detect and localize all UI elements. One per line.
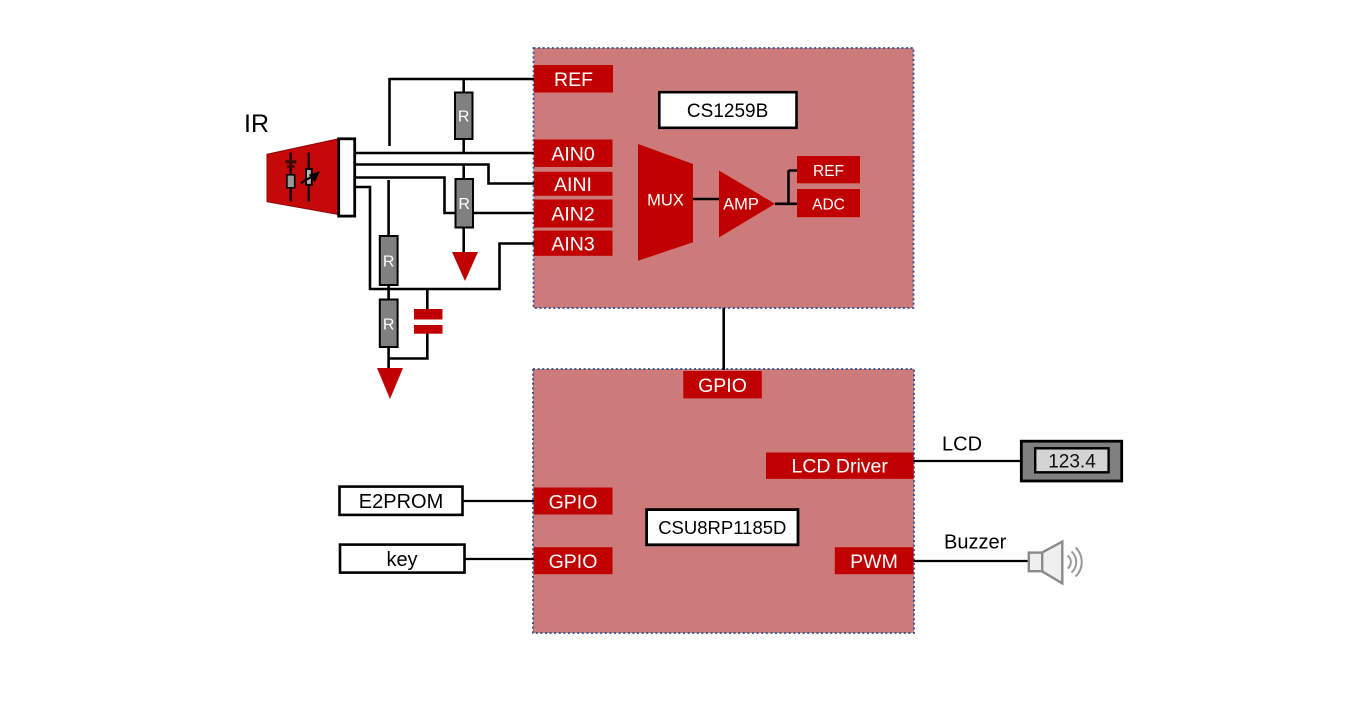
- wire AMP output junction: [775, 171, 797, 204]
- svg-text:GPIO: GPIO: [549, 551, 598, 573]
- port label REF (U1): [534, 65, 613, 93]
- box E2PROM: [340, 487, 463, 515]
- wire AINI net: [355, 165, 535, 184]
- wire R4 top stub: [387, 289, 390, 300]
- svg-text:CS1259B: CS1259B: [687, 101, 768, 122]
- resistor R1: [455, 93, 473, 140]
- svg-text:ADC: ADC: [812, 197, 845, 214]
- svg-text:R: R: [383, 254, 395, 271]
- svg-text:LCD Driver: LCD Driver: [791, 456, 888, 478]
- wire C1 bottom to R4 bottom: [389, 334, 428, 359]
- wire R4 bottom stub to ground: [387, 347, 390, 369]
- wire REF net vertical stub: [388, 78, 391, 146]
- wire E2PROM to GPIO: [463, 500, 535, 502]
- wire R1 bottom stub: [462, 139, 465, 153]
- wire R3 drop from AIN2 net: [387, 180, 390, 237]
- svg-text:123.4: 123.4: [1048, 452, 1096, 473]
- svg-text:R: R: [383, 317, 395, 334]
- internal box ADC: [797, 189, 860, 217]
- box key: [340, 545, 465, 573]
- svg-text:GPIO: GPIO: [698, 375, 747, 397]
- wire AIN2 net: [355, 178, 535, 214]
- svg-text:AIN2: AIN2: [551, 204, 594, 226]
- svg-text:LCD: LCD: [942, 434, 982, 456]
- wire REF net horizontal: [390, 78, 536, 81]
- svg-text:REF: REF: [813, 163, 844, 180]
- svg-text:AINI: AINI: [554, 174, 592, 196]
- LCD module outer frame: [1021, 441, 1121, 481]
- port label GPIO left upper: [534, 488, 613, 515]
- chip name box CS1259B: [659, 92, 796, 128]
- wire R1 top stub: [462, 79, 465, 93]
- LCD module screen: [1035, 448, 1108, 472]
- svg-text:IR: IR: [244, 110, 269, 138]
- port label LCD Driver: [766, 453, 914, 479]
- block U2 CSU8RP1185D MCU body: [533, 369, 914, 633]
- svg-text:R: R: [458, 109, 470, 126]
- svg-text:R: R: [458, 196, 470, 213]
- wire R2 top stub: [462, 165, 465, 181]
- wire R2 bottom stub to ground: [462, 228, 465, 254]
- wire U1 GPIO to U2 GPIO: [722, 308, 725, 370]
- ground arrow left (below R4): [377, 368, 403, 399]
- wire AIN3 net: [355, 187, 535, 289]
- IR sensor internal thermopile symbol: [285, 153, 296, 202]
- wire key to GPIO: [465, 558, 535, 560]
- internal box REF: [797, 156, 860, 183]
- capacitor C1 plates: [414, 309, 443, 334]
- svg-text:REF: REF: [554, 69, 593, 91]
- IR sensor connector (white bar): [339, 139, 355, 216]
- port label PWM: [835, 547, 914, 574]
- wire C1 top stub: [426, 289, 429, 310]
- IR sensor body (red trapezoid): [267, 139, 339, 215]
- svg-text:AMP: AMP: [723, 196, 759, 214]
- port label GPIO left lower: [534, 547, 613, 574]
- port label GPIO top (U2): [683, 371, 762, 398]
- svg-text:PWM: PWM: [850, 551, 898, 573]
- svg-text:key: key: [386, 549, 417, 571]
- buzzer sound waves: [1068, 548, 1082, 577]
- port label AIN2: [534, 200, 613, 228]
- mux (trapezoid): [638, 144, 693, 261]
- wire LCD Driver to LCD: [914, 460, 1022, 462]
- resistor R4: [380, 300, 398, 348]
- IR sensor internal thermistor symbol with arrow: [301, 153, 320, 202]
- port label AIN3: [534, 231, 613, 256]
- wire PWM to buzzer: [914, 560, 1030, 562]
- block U1 CS1259B ADC chip body: [534, 48, 914, 308]
- port label AIN0: [534, 140, 613, 168]
- wire R3 bottom stub: [387, 285, 390, 290]
- resistor R2: [456, 179, 474, 228]
- port label AINI: [534, 172, 613, 196]
- svg-text:E2PROM: E2PROM: [359, 491, 443, 513]
- resistor R3: [380, 236, 398, 285]
- chip name box CSU8RP1185D: [647, 510, 798, 545]
- svg-text:Buzzer: Buzzer: [944, 532, 1007, 554]
- svg-text:GPIO: GPIO: [549, 492, 598, 514]
- wire MUX to AMP: [693, 198, 719, 201]
- svg-text:AIN0: AIN0: [551, 144, 595, 166]
- ground arrow right (below R2): [452, 252, 478, 281]
- buzzer speaker body: [1029, 542, 1063, 584]
- svg-text:MUX: MUX: [647, 192, 684, 210]
- svg-text:AIN3: AIN3: [551, 234, 594, 256]
- wire AIN0 net: [355, 152, 535, 155]
- svg-text:CSU8RP1185D: CSU8RP1185D: [658, 517, 786, 538]
- amp (triangle): [719, 171, 775, 238]
